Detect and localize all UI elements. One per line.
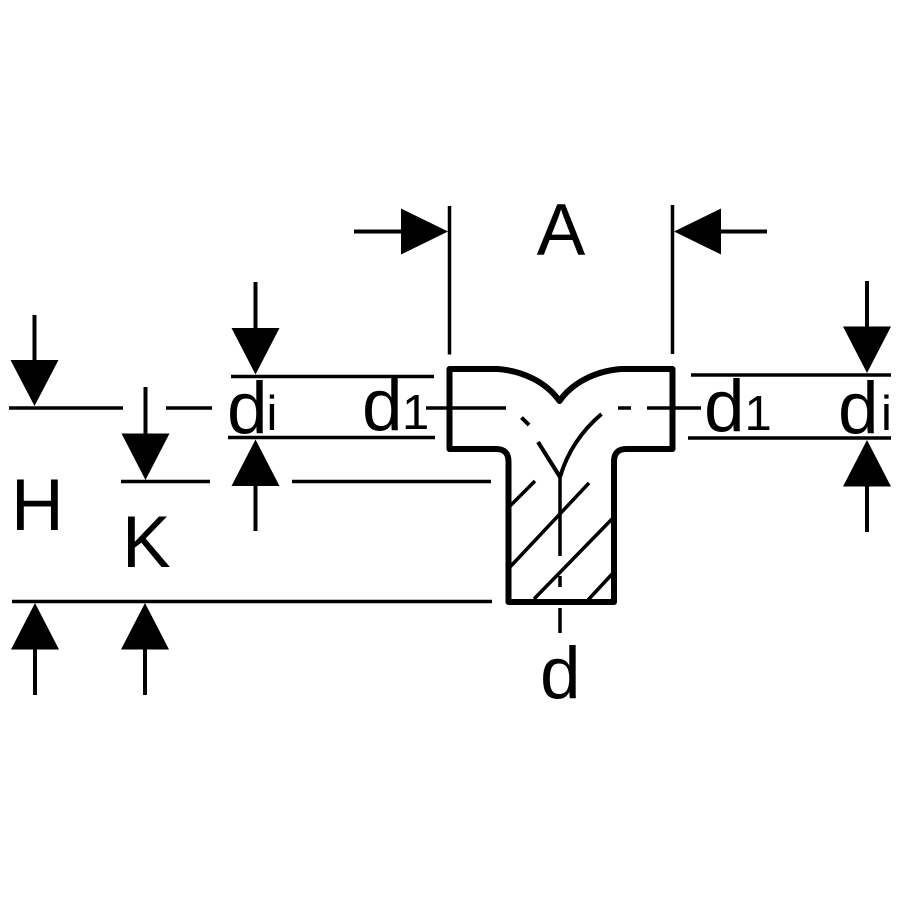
- svg-text:K: K: [122, 502, 171, 583]
- svg-text:1: 1: [402, 386, 429, 440]
- svg-text:d: d: [540, 633, 581, 714]
- svg-text:d: d: [704, 366, 745, 447]
- svg-text:1: 1: [745, 387, 772, 441]
- svg-text:d: d: [227, 368, 268, 449]
- svg-text:d: d: [362, 365, 403, 446]
- svg-text:i: i: [267, 387, 278, 441]
- svg-text:d: d: [838, 368, 879, 449]
- svg-text:H: H: [11, 465, 64, 546]
- svg-text:i: i: [881, 387, 892, 441]
- svg-text:A: A: [537, 190, 586, 271]
